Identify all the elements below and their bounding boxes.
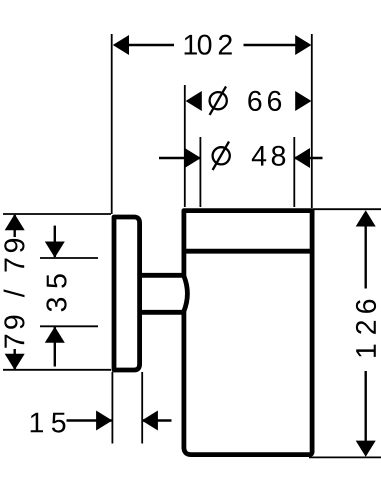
dimension 35 bottom arrow xyxy=(45,327,65,343)
extension line right of dim 48 xyxy=(293,137,295,207)
extension line top of dim 79/79 xyxy=(3,213,111,215)
dimension 102 right arrow xyxy=(295,35,311,55)
dimension 35 top arrow xyxy=(45,242,65,258)
extension line left of dim 66 xyxy=(184,85,186,207)
extension line left of dim 48 xyxy=(199,137,201,207)
dimension label 126 (rotated) xyxy=(356,345,376,357)
dimension 48 left arrow xyxy=(185,148,201,168)
dimension 35 bottom leader xyxy=(54,327,56,367)
dimension 48 right leader xyxy=(294,157,323,159)
tumbler cup with holder ring (side view outline) xyxy=(184,211,312,455)
dimension 35 top leader xyxy=(54,226,56,257)
extension line left of dim 102 (wall line) xyxy=(111,34,113,214)
dimension 126 top arrow xyxy=(356,210,376,226)
dimension 79/79 top arrow xyxy=(5,214,25,230)
dimension 15 right arrow xyxy=(142,411,158,431)
dimension 79/79 bottom arrow xyxy=(5,354,25,370)
holder ring bottom edge xyxy=(182,249,314,254)
dimension 15 right leader xyxy=(142,419,172,421)
wall plate (escutcheon, side view) xyxy=(114,217,140,370)
diameter symbol for 66 xyxy=(210,92,227,109)
dimension label 66 xyxy=(248,91,261,111)
dimension 126 bottom arrow xyxy=(356,441,376,457)
dimension 79/79 line xyxy=(13,215,15,237)
dimension label 102 xyxy=(185,35,197,55)
extension line bottom of dim 79/79 xyxy=(3,369,111,371)
extension line right of dim 15 xyxy=(141,372,143,444)
extension line bottom of dim 126 xyxy=(309,456,381,458)
dimension 15 left leader xyxy=(67,419,112,421)
dimension label 35 (rotated) xyxy=(46,298,66,312)
dimension 102 left arrow xyxy=(113,35,129,55)
support arm bottom edge xyxy=(141,310,185,315)
extension line top of dim 126 xyxy=(313,208,381,210)
dimension 102 line xyxy=(116,44,174,47)
dimension 126 line xyxy=(365,212,367,289)
diameter symbol for 48 xyxy=(213,147,230,164)
extension line right of dim 102 / dim 66 xyxy=(311,34,313,208)
extension line bottom of dim 35 xyxy=(40,325,98,327)
dimension label 48 xyxy=(252,146,266,166)
extension line left of dim 15 xyxy=(111,372,113,444)
dimension 48 right arrow xyxy=(294,148,310,168)
dimension 15 left arrow xyxy=(96,411,112,431)
dimension label 79 / 79 (rotated) xyxy=(5,335,25,348)
dimension 48 left leader xyxy=(159,157,200,159)
dimension 66 left arrow xyxy=(186,91,202,111)
support arm top edge xyxy=(141,273,185,278)
dimension label 15 xyxy=(31,413,43,433)
dimension 66 right arrow xyxy=(295,91,311,111)
extension line top of dim 35 xyxy=(40,257,98,259)
